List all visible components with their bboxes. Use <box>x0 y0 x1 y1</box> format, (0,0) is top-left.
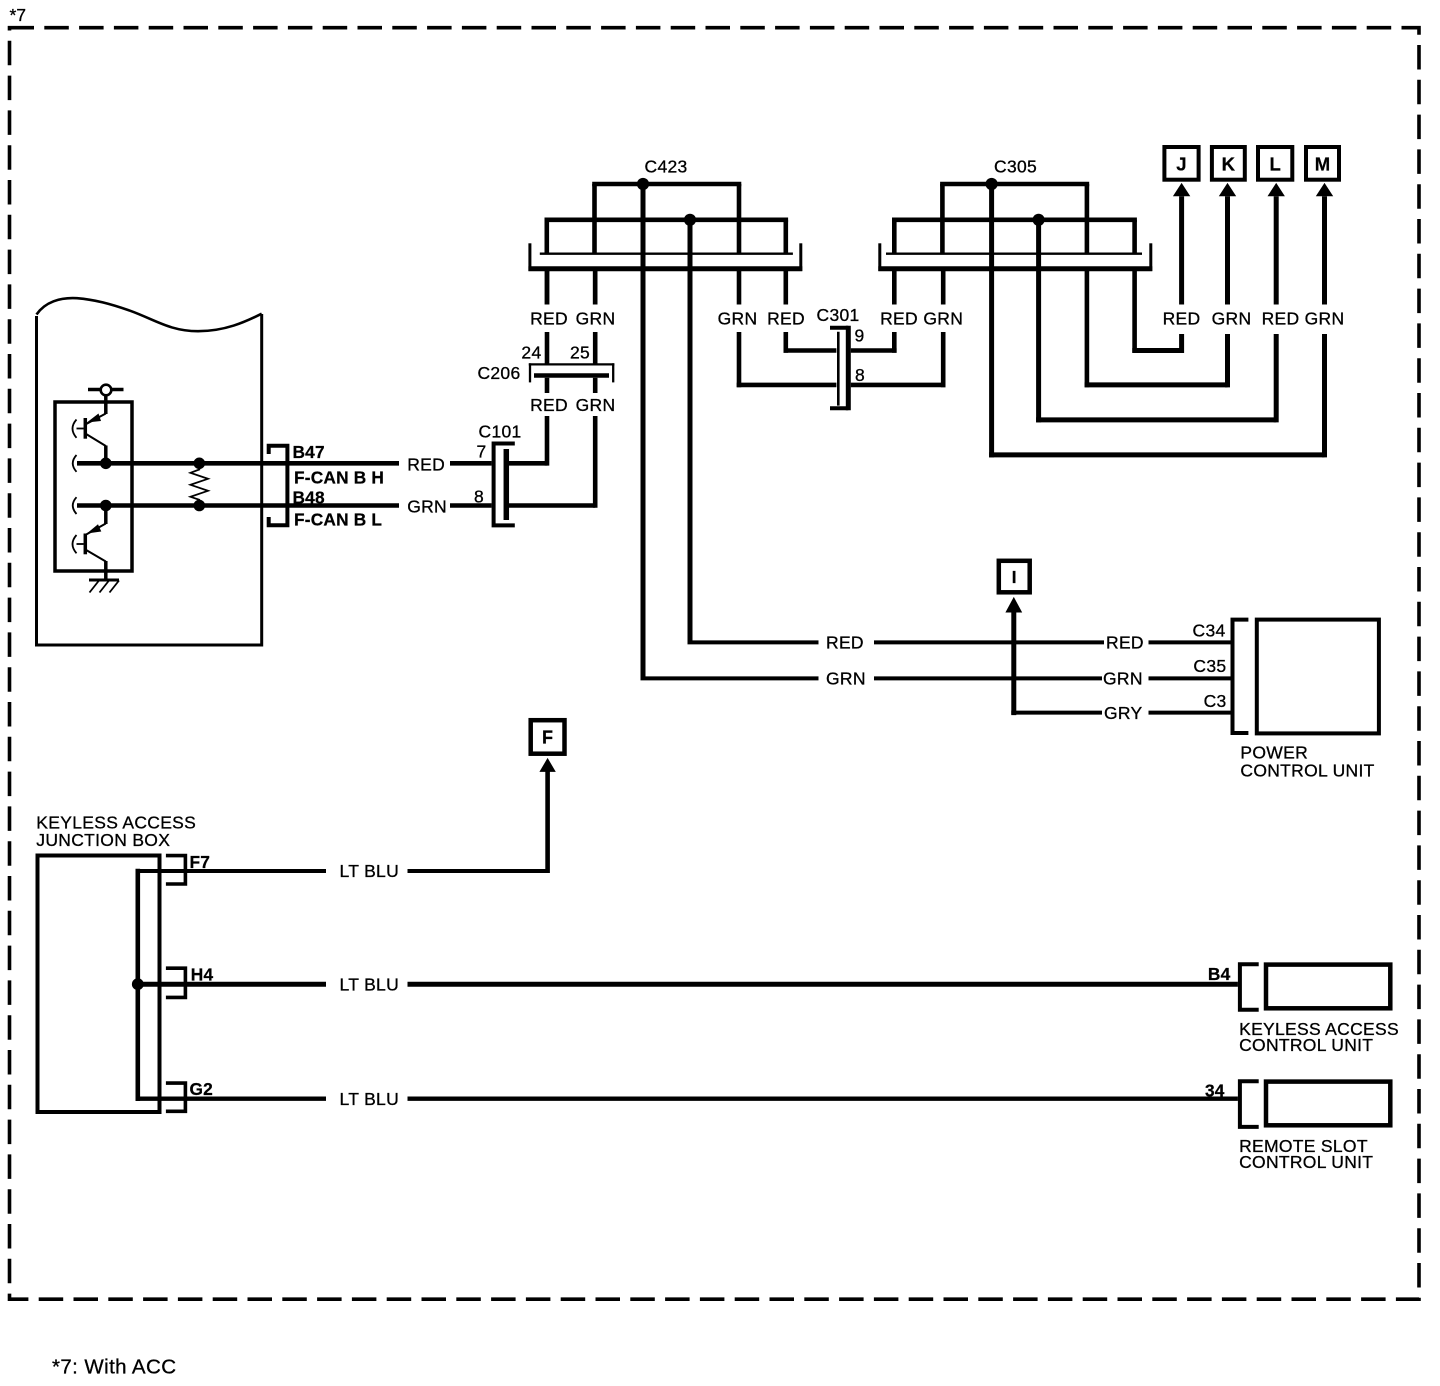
svg-text:H4: H4 <box>191 965 214 985</box>
C301 pin 8 right wire <box>851 383 946 388</box>
wire C101 pin7 to corner <box>509 461 548 466</box>
wire B47 (inside unit) <box>77 461 399 466</box>
arrow to L <box>1268 183 1285 196</box>
wire K run <box>1085 382 1228 387</box>
transistor Q1 arrow <box>87 414 101 423</box>
svg-text:C301: C301 <box>817 305 860 325</box>
junction box internal bus <box>136 869 141 1101</box>
connector C423 top bus (GRN) <box>592 182 741 187</box>
transistor Q1 emitter slant <box>85 434 106 447</box>
wire RED through C305 down to L run <box>1036 220 1041 423</box>
connector C305 top bus (GRN) <box>940 182 1089 187</box>
connector C423 left wall <box>528 243 531 271</box>
C305 pin down-leg GRN right <box>1085 184 1090 253</box>
C305 pin to J: vertical <box>1132 270 1137 353</box>
bracket H4 <box>166 968 186 997</box>
ground hatch 3 <box>110 581 120 593</box>
connector C423 second bus (RED) <box>545 218 789 223</box>
svg-text:J: J <box>1176 154 1187 175</box>
box M <box>1306 147 1339 180</box>
wire RED through C423 down to RED run <box>688 220 693 643</box>
power control unit box <box>1257 620 1379 734</box>
svg-text:K: K <box>1222 154 1236 175</box>
junction dot resistor bottom <box>194 500 206 512</box>
svg-text:RED: RED <box>530 309 568 329</box>
wire H4 stub <box>136 982 327 987</box>
svg-text:CONTROL UNIT: CONTROL UNIT <box>1240 760 1374 780</box>
wire RED B47 to C101 pin 7 <box>450 461 492 466</box>
svg-text:LT BLU: LT BLU <box>340 1089 400 1109</box>
wire B48 (inside unit) <box>77 503 399 508</box>
arrow to M <box>1316 183 1333 196</box>
transistor Q2 base tick <box>77 543 84 545</box>
C423 GRN pin to C301-8: horizontal <box>737 383 837 388</box>
svg-text:C34: C34 <box>1193 621 1226 641</box>
bracket B4 <box>1240 964 1259 1009</box>
svg-text:GRN: GRN <box>576 395 616 415</box>
ground bar <box>89 579 119 582</box>
wire RED run segments <box>688 640 819 644</box>
svg-text:*7: *7 <box>10 5 27 25</box>
transistor Q1 upper slant <box>85 414 106 425</box>
transistor Q2 upper slant <box>85 524 106 536</box>
svg-text:RED: RED <box>880 309 918 329</box>
wire J vertical <box>1179 334 1184 353</box>
wire F7 LT BLU to F corner <box>408 869 548 873</box>
svg-text:RED: RED <box>530 395 568 415</box>
svg-text:C35: C35 <box>1193 656 1226 676</box>
C305 GRN pin down to C301-8 <box>941 332 946 387</box>
C423 pin 25 below band <box>593 270 598 305</box>
continuation arc at B48 wire <box>73 497 77 514</box>
connector C305 body thin line <box>886 253 1142 255</box>
wire M run <box>989 452 1324 457</box>
svg-text:RED: RED <box>826 633 864 653</box>
C423 GRN pin to C301-8: vertical <box>737 270 742 305</box>
connector C305 left wall <box>878 243 881 271</box>
svg-text:I: I <box>1012 567 1017 587</box>
svg-text:LT BLU: LT BLU <box>340 861 400 881</box>
svg-text:JUNCTION BOX: JUNCTION BOX <box>36 830 170 850</box>
wire vertical RED up to C206 pin 24 <box>545 416 550 466</box>
wire K vertical <box>1225 334 1230 387</box>
junction dot C423 GRN <box>637 178 649 190</box>
wire L run <box>1036 417 1276 422</box>
unit box (torn, top-left control unit) <box>37 314 262 645</box>
C305 pin down-leg RED left <box>892 220 897 253</box>
transistor Q2 base continuation arc <box>73 535 77 553</box>
wire I vertical (GRY) <box>1011 610 1016 715</box>
svg-text:CONTROL UNIT: CONTROL UNIT <box>1239 1035 1373 1055</box>
C423 RED pin to C301-9: horizontal <box>784 348 837 353</box>
C305 pin down-leg RED right <box>1132 220 1137 253</box>
connector C305 body bar <box>878 266 1152 271</box>
svg-text:B48: B48 <box>293 488 325 508</box>
svg-text:CONTROL UNIT: CONTROL UNIT <box>1239 1152 1373 1172</box>
junction dot H4 bus <box>132 978 144 990</box>
svg-text:M: M <box>1315 154 1331 175</box>
C305 RED pin down to C301-9 <box>892 332 897 353</box>
svg-text:L: L <box>1269 154 1281 175</box>
wire C101 pin8 to corner <box>509 503 595 508</box>
connector C423 right wall <box>799 243 802 271</box>
wire G2 LT BLU to 34 <box>408 1096 1238 1100</box>
connector C301 bar <box>846 326 851 411</box>
transistor Q1 (upper) collector stub <box>104 396 108 415</box>
ground hatch 1 <box>90 581 100 593</box>
svg-text:POWER: POWER <box>1240 742 1308 762</box>
connector C206 right wall <box>612 363 614 382</box>
connector C301 top cap <box>830 326 848 330</box>
svg-text:F-CAN B H: F-CAN B H <box>294 468 384 488</box>
connector C101 bar <box>504 449 510 520</box>
transistor Q1 emitter stub <box>104 446 108 464</box>
box L <box>1258 147 1292 180</box>
ground hatch 2 <box>100 581 110 593</box>
wire GRN run segments <box>641 676 819 680</box>
wire L vertical <box>1274 334 1279 422</box>
svg-text:RED: RED <box>1262 309 1300 329</box>
svg-text:GRN: GRN <box>826 669 866 689</box>
transistor Q1 base continuation arc <box>73 420 77 438</box>
C423 pin down-leg GRN right <box>737 184 742 253</box>
svg-text:RED: RED <box>767 309 805 329</box>
connector bracket B47/B48 <box>269 446 288 526</box>
svg-text:F-CAN B L: F-CAN B L <box>294 510 382 530</box>
svg-text:8: 8 <box>474 486 484 506</box>
svg-text:F: F <box>542 728 553 748</box>
connector C206 left wall <box>529 363 531 382</box>
svg-text:7: 7 <box>476 442 486 462</box>
C305 pin to K: vertical <box>1085 270 1090 387</box>
C423 pin 24 below band <box>545 270 550 305</box>
svg-text:24: 24 <box>521 343 541 363</box>
arrow to K <box>1219 183 1236 196</box>
box F <box>531 720 565 754</box>
junction dot C423 RED <box>684 214 696 226</box>
junction dot Q2/B48 <box>100 500 112 512</box>
svg-text:GRN: GRN <box>1103 669 1143 689</box>
svg-text:C101: C101 <box>479 422 522 442</box>
remote slot control unit box <box>1266 1082 1390 1126</box>
resistor (terminating, zigzag) <box>191 463 209 505</box>
bracket G2 <box>166 1083 186 1111</box>
svg-text:GRN: GRN <box>1212 309 1252 329</box>
svg-text:25: 25 <box>570 343 590 363</box>
bracket F7 <box>166 856 186 884</box>
continuation arc at B47 wire <box>73 455 77 472</box>
transistor Q2 emitter stub to ground <box>104 561 108 580</box>
arrow to I <box>1005 597 1022 613</box>
svg-text:8: 8 <box>855 365 865 385</box>
wire J run <box>1132 348 1181 353</box>
junction dot C305 RED <box>1033 214 1045 226</box>
C423 pin down-leg GRN left <box>592 184 597 253</box>
C423 pin down-leg RED left <box>544 220 549 253</box>
wire F7 stub <box>136 869 327 873</box>
wire GRY run segments <box>1011 711 1102 715</box>
transistor Q1 base tick <box>77 428 84 430</box>
wire vertical GRN up to C206 pin 25 <box>593 416 598 508</box>
arrow to J <box>1173 183 1190 196</box>
power control unit pin bracket <box>1233 620 1249 733</box>
C305 pin down-leg GRN left <box>940 184 945 253</box>
junction dot C305 GRN <box>986 178 998 190</box>
connector C423 body thin line <box>540 253 793 255</box>
transistor block inner rectangle <box>55 402 132 571</box>
svg-text:F7: F7 <box>190 852 211 872</box>
wire GRN through C305 down to M run <box>989 184 994 457</box>
C423 pin down-leg RED right <box>783 220 788 253</box>
connector C305 right wall <box>1149 243 1152 271</box>
svg-text:B47: B47 <box>293 442 325 462</box>
transistor Q1 base bar <box>84 418 88 439</box>
C423 RED pin to C301-9: vertical <box>783 270 788 305</box>
svg-text:34: 34 <box>1205 1081 1225 1101</box>
wire H4 LT BLU to B4 <box>408 982 1238 987</box>
torn wavy top edge <box>37 298 262 331</box>
junction dot Q1/B47 <box>100 458 112 470</box>
connector C301 bottom cap <box>830 406 848 410</box>
box J <box>1164 147 1198 180</box>
keyless access control unit box <box>1266 965 1390 1009</box>
bracket 34 <box>1240 1081 1259 1127</box>
wire G2 stub <box>136 1096 327 1100</box>
box I <box>999 561 1030 593</box>
power symbol (circle with side bars) <box>88 388 124 392</box>
svg-text:GRN: GRN <box>407 497 447 517</box>
transistor Q2 arrow <box>87 524 102 533</box>
svg-text:C3: C3 <box>1204 691 1227 711</box>
transistor Q2 (lower) collector stub <box>104 506 108 525</box>
wire GRN through C423 down to GRN run <box>641 184 646 678</box>
C301 pin 9 right wire <box>851 348 897 353</box>
svg-text:9: 9 <box>855 326 865 346</box>
svg-text:LT BLU: LT BLU <box>340 974 400 994</box>
svg-text:GRN: GRN <box>576 309 616 329</box>
svg-text:GRY: GRY <box>1104 703 1143 723</box>
wire F vertical <box>545 770 550 874</box>
svg-text:G2: G2 <box>190 1079 213 1099</box>
svg-text:C305: C305 <box>994 157 1037 177</box>
connector C206 top line <box>529 363 615 365</box>
arrow to F <box>539 758 555 772</box>
svg-text:C423: C423 <box>645 157 688 177</box>
connector C305 second bus (RED) <box>892 218 1137 223</box>
junction dot resistor top <box>194 458 206 470</box>
connector C423 body bar <box>528 266 802 271</box>
connector C301 inner line <box>837 332 840 406</box>
svg-text:GRN: GRN <box>718 309 758 329</box>
wire GRN B48 to C101 pin 8 <box>450 503 492 508</box>
svg-text:RED: RED <box>407 454 445 474</box>
connector C206 bar <box>534 373 609 378</box>
svg-text:RED: RED <box>1163 309 1201 329</box>
box K <box>1212 147 1245 180</box>
svg-text:*7: With ACC: *7: With ACC <box>52 1356 176 1379</box>
transistor Q2 emitter slant <box>85 550 106 562</box>
wire M vertical <box>1322 334 1327 457</box>
keyless access junction box <box>38 856 160 1113</box>
transistor Q2 base bar <box>84 534 88 555</box>
svg-text:GRN: GRN <box>1305 309 1345 329</box>
connector C101 bracket <box>494 444 515 526</box>
svg-text:B4: B4 <box>1208 964 1231 984</box>
svg-text:RED: RED <box>1106 633 1144 653</box>
svg-text:GRN: GRN <box>923 309 963 329</box>
svg-text:C206: C206 <box>477 363 520 383</box>
